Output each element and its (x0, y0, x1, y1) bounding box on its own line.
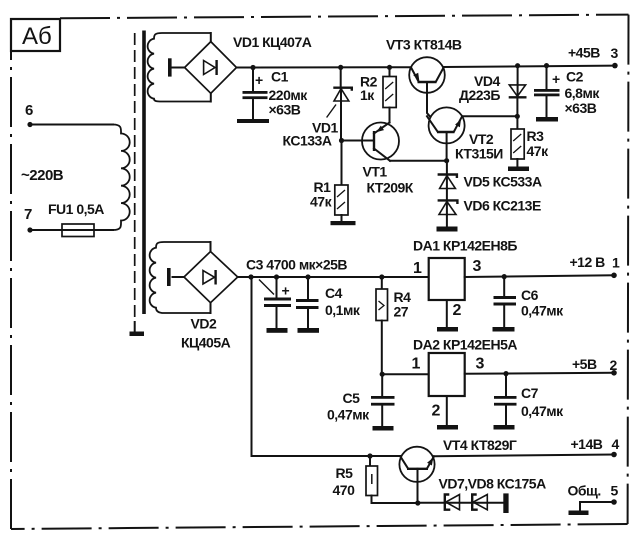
capacitor C4 0,1mk (296, 277, 361, 328)
node terminal 7 (24, 206, 33, 233)
svg-text:2: 2 (453, 302, 462, 319)
svg-text:4: 4 (612, 436, 620, 452)
svg-text:0,47мк: 0,47мк (327, 407, 370, 423)
svg-text:С3 4700 мк×25В: С3 4700 мк×25В (246, 257, 347, 273)
zener diode VD1 KC133A (283, 67, 352, 148)
ground under VD6 (437, 227, 458, 232)
svg-text:С4: С4 (325, 285, 343, 301)
ground under C2 (536, 117, 558, 122)
transistor VT4 KT829G (399, 437, 516, 503)
svg-text:27: 27 (394, 304, 409, 320)
ground of screen (130, 332, 145, 337)
node C4 junction (305, 274, 310, 279)
wire base node to VD7 (418, 502, 504, 504)
svg-text:С5: С5 (343, 390, 361, 406)
node VT1 base junction (339, 138, 344, 143)
resistor R5 470 (333, 456, 418, 503)
node R5 junction (367, 453, 372, 458)
svg-text:FU1 0,5А: FU1 0,5А (48, 201, 104, 217)
transistor VT2 KT315I (427, 107, 503, 161)
svg-text:×63В: ×63В (269, 102, 301, 118)
svg-text:КТ315И: КТ315И (455, 146, 503, 162)
svg-text:+: + (282, 283, 290, 299)
transformer screen (dashed, grounded) (134, 33, 136, 332)
resistor R2 1k (360, 67, 396, 122)
node R4 junction (379, 274, 384, 279)
svg-text:0,47мк: 0,47мк (521, 303, 564, 319)
node terminal 6 (25, 102, 33, 127)
wire bridge2 out rail +12V (238, 276, 429, 278)
node C2 junction (544, 63, 549, 68)
capacitor C3 4700mk x25V (246, 257, 347, 329)
node output terminal Obsh 5 (568, 483, 619, 505)
svg-text:Аб: Аб (22, 23, 52, 50)
node output terminal +5V 2 (572, 356, 618, 376)
ground under DA2 pin2 (437, 425, 458, 430)
voltage regulator DA1 KR142EN8B (413, 238, 517, 328)
capacitor C2 6,8mk x63V (534, 66, 600, 117)
ground under C1 (237, 119, 269, 123)
transformer secondary winding I (148, 33, 211, 102)
svg-text:R5: R5 (336, 465, 354, 481)
svg-text:VT1: VT1 (363, 164, 388, 180)
resistor R4 27 (376, 277, 411, 374)
svg-text:47к: 47к (310, 194, 333, 210)
wire terminal6 to primary top (30, 124, 113, 126)
wire DA2 out rail +5V (465, 373, 614, 374)
svg-text:R3: R3 (527, 128, 545, 144)
ground under R1 (331, 221, 356, 225)
wire R4 to DA2 pin1 (382, 373, 429, 375)
svg-text:С6: С6 (521, 287, 539, 303)
svg-text:VD7,VD8 КС175А: VD7,VD8 КС175А (439, 476, 547, 492)
node C6 junction (502, 274, 507, 279)
zener diode VD5 KC533A (438, 161, 542, 190)
block designator box A6 (11, 19, 60, 51)
svg-text:КЦ405А: КЦ405А (181, 335, 231, 351)
svg-text:С2: С2 (566, 69, 584, 85)
svg-text:VD1 КЦ407А: VD1 КЦ407А (233, 34, 312, 50)
svg-text:~220В: ~220В (21, 167, 64, 184)
svg-text:VT4 КТ829Г: VT4 КТ829Г (443, 437, 517, 453)
ground bar after VD8 (503, 493, 508, 513)
transformer secondary winding II (150, 242, 211, 313)
svg-text:Д223Б: Д223Б (459, 87, 500, 103)
capacitor C1 220mk x63V (243, 68, 309, 120)
svg-text:С1: С1 (271, 69, 289, 85)
svg-text:6: 6 (25, 102, 33, 119)
node C5 junction (380, 372, 385, 377)
diode VD7 (445, 495, 460, 510)
node output terminal +12V 1 (570, 254, 621, 278)
bridge rectifier VD1 (185, 42, 237, 94)
voltage regulator DA2 KR142EN5A (412, 337, 518, 426)
wire bridge1 out to rail (237, 66, 411, 68)
node R2 junction (387, 65, 392, 70)
node VD5 junction (444, 158, 449, 163)
svg-text:VD6 КС213Е: VD6 КС213Е (464, 198, 541, 214)
svg-text:КС133А: КС133А (283, 133, 332, 149)
wire down to VT4 stage (252, 277, 401, 456)
node C7 junction (503, 371, 508, 376)
svg-text:0,47мк: 0,47мк (521, 403, 564, 419)
fuse FU1 0,5A (30, 201, 113, 237)
wire VT2 emitter to VD4 node (462, 115, 517, 117)
svg-text:+5В: +5В (572, 356, 597, 372)
ground at bridge VD1 (168, 58, 172, 76)
ground under C4 (298, 328, 320, 333)
svg-text:×63В: ×63В (565, 100, 597, 116)
svg-text:3: 3 (473, 258, 482, 275)
chassis symbol at Obsh (569, 502, 615, 515)
wire secondary II to bridge (210, 242, 212, 313)
node zener VD1 junction (338, 65, 343, 70)
svg-text:Общ.: Общ. (568, 483, 601, 499)
node C3 junction (274, 274, 279, 279)
transistor VT3 KT814V (386, 37, 462, 117)
diode VD4 D223B (459, 66, 527, 117)
node C1 junction (250, 65, 255, 70)
svg-text:+: + (552, 71, 560, 87)
transformer core (142, 31, 146, 315)
svg-text:1: 1 (412, 356, 421, 373)
resistor R3 47k (511, 116, 549, 166)
zener diode VD6 KC213E (438, 189, 541, 227)
transistor VT1 KT209K (342, 123, 414, 196)
svg-text:7: 7 (24, 206, 32, 223)
node VT4 base junction (415, 500, 420, 505)
ground under C3 (267, 328, 288, 333)
ground under DA1 pin2 (437, 327, 458, 332)
wire bridge1 minus to ground (172, 67, 185, 69)
svg-text:470: 470 (333, 482, 356, 498)
svg-text:DA1 КР142ЕН8Б: DA1 КР142ЕН8Б (413, 238, 517, 254)
svg-text:+45В: +45В (568, 45, 600, 61)
bridge rectifier VD2 (181, 252, 238, 351)
svg-text:3: 3 (476, 356, 485, 373)
capacitor C6 0,47mk (494, 277, 565, 327)
wire bridge2 minus to ground (173, 276, 185, 278)
node VD4 rail junction (515, 63, 520, 68)
resistor R1 47k (310, 141, 348, 222)
svg-text:+14В: +14В (571, 436, 603, 452)
node R3 junction (515, 114, 520, 119)
svg-text:+: + (255, 72, 263, 88)
wire rail VT3 to +45V (444, 66, 615, 67)
svg-text:3: 3 (611, 45, 619, 61)
svg-text:1: 1 (612, 255, 620, 271)
node drop wire junction (248, 274, 253, 279)
svg-text:VD5 КС533А: VD5 КС533А (464, 174, 542, 190)
svg-text:5: 5 (611, 483, 619, 499)
node output terminal +14V 4 (571, 436, 620, 457)
ground under C7 (494, 425, 515, 430)
svg-text:КТ209К: КТ209К (367, 180, 414, 196)
wire VT1 collector to VT2 base node (390, 160, 447, 162)
capacitor C7 0,47mk (494, 374, 564, 425)
diode VD8 (472, 495, 487, 510)
wire VT4 emitter rail +14V (434, 455, 614, 457)
ground under C6 (493, 327, 515, 332)
svg-text:VD2: VD2 (191, 316, 217, 332)
svg-text:+12 В: +12 В (570, 254, 606, 270)
capacitor C5 0,47mk (327, 374, 395, 426)
wire secondary I to bridge (210, 33, 212, 102)
svg-text:6,8мк: 6,8мк (565, 85, 601, 101)
svg-text:DA2 КР142ЕН5А: DA2 КР142ЕН5А (413, 337, 517, 353)
ground under C5 (373, 426, 394, 431)
svg-text:С7: С7 (521, 385, 539, 401)
node output terminal +45V 3 (568, 45, 619, 69)
svg-text:1к: 1к (360, 87, 375, 103)
transformer T1 primary winding (113, 125, 130, 231)
wire DA1 out rail (465, 275, 614, 277)
svg-text:47к: 47к (527, 143, 550, 159)
svg-text:0,1мк: 0,1мк (325, 302, 361, 318)
svg-text:1: 1 (413, 260, 422, 277)
svg-text:VT3 КТ814В: VT3 КТ814В (386, 37, 462, 53)
ground under R3 (508, 167, 529, 172)
svg-text:2: 2 (432, 403, 441, 420)
ground at bridge VD2 (167, 268, 171, 286)
